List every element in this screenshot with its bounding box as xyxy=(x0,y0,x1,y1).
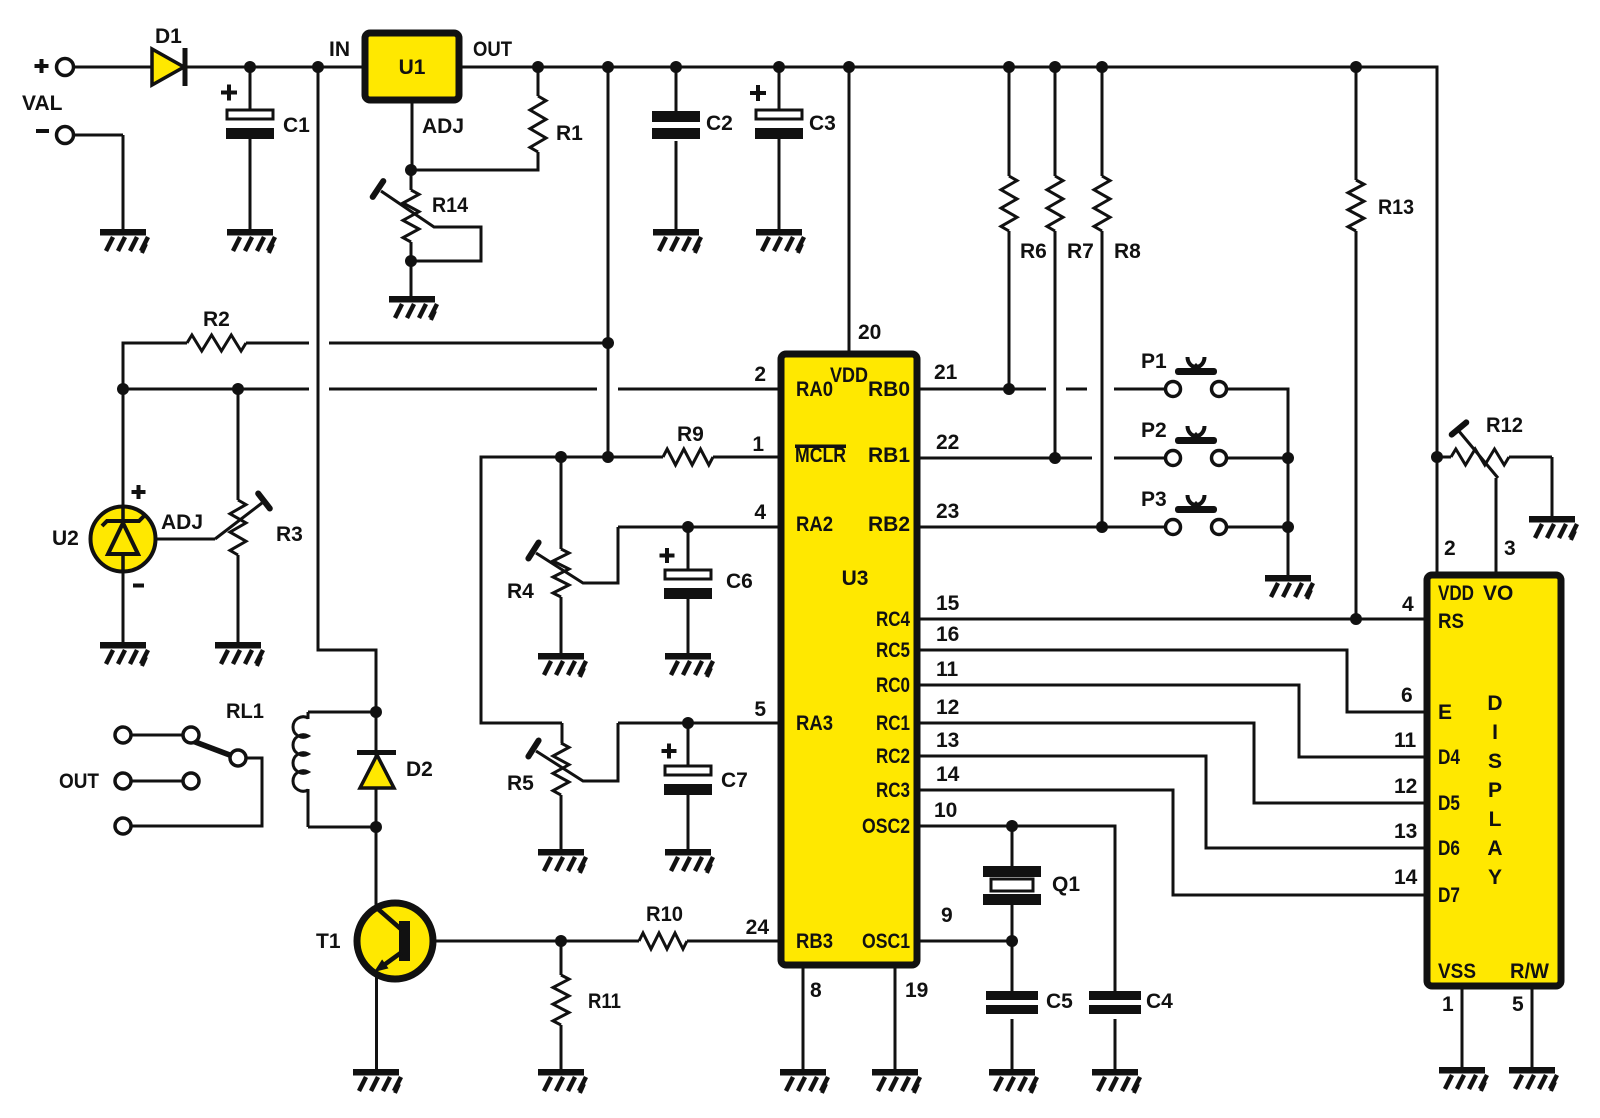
svg-text:D2: D2 xyxy=(406,758,433,781)
svg-text:1: 1 xyxy=(752,433,764,456)
svg-text:I: I xyxy=(1492,721,1498,744)
svg-text:C5: C5 xyxy=(1046,990,1073,1013)
svg-text:14: 14 xyxy=(1394,866,1418,889)
svg-text:VAL: VAL xyxy=(22,92,63,115)
svg-text:R4: R4 xyxy=(507,580,534,603)
svg-text:11: 11 xyxy=(936,658,959,681)
svg-text:RA3: RA3 xyxy=(796,712,833,735)
svg-text:24: 24 xyxy=(746,916,770,939)
svg-text:3: 3 xyxy=(1504,537,1516,560)
svg-text:R13: R13 xyxy=(1378,196,1414,219)
svg-text:RA0: RA0 xyxy=(796,378,833,401)
svg-text:R3: R3 xyxy=(276,523,303,546)
svg-text:2: 2 xyxy=(1444,537,1456,560)
svg-text:IN: IN xyxy=(329,38,350,61)
svg-text:D5: D5 xyxy=(1438,792,1460,815)
svg-text:4: 4 xyxy=(754,501,766,524)
svg-text:1: 1 xyxy=(1442,993,1454,1016)
svg-text:VDD: VDD xyxy=(1438,582,1474,605)
svg-text:23: 23 xyxy=(936,500,959,523)
svg-text:20: 20 xyxy=(858,321,881,344)
svg-text:A: A xyxy=(1487,837,1502,860)
svg-text:22: 22 xyxy=(936,431,959,454)
svg-text:R12: R12 xyxy=(1486,414,1523,437)
svg-text:R/W: R/W xyxy=(1510,960,1549,983)
svg-text:Q1: Q1 xyxy=(1052,873,1080,896)
svg-text:OSC2: OSC2 xyxy=(862,815,910,838)
svg-text:R7: R7 xyxy=(1067,240,1094,263)
svg-text:OUT: OUT xyxy=(473,38,512,61)
svg-text:D: D xyxy=(1487,692,1502,715)
svg-text:4: 4 xyxy=(1402,593,1414,616)
svg-text:RC5: RC5 xyxy=(876,639,910,662)
svg-text:OSC1: OSC1 xyxy=(862,930,910,953)
svg-text:RB3: RB3 xyxy=(796,930,833,953)
svg-text:5: 5 xyxy=(754,698,766,721)
svg-text:D7: D7 xyxy=(1438,884,1460,907)
svg-text:E: E xyxy=(1438,701,1452,724)
svg-text:D1: D1 xyxy=(155,25,182,48)
svg-text:R10: R10 xyxy=(646,903,683,926)
svg-text:5: 5 xyxy=(1512,993,1524,1016)
svg-text:6: 6 xyxy=(1401,684,1413,707)
svg-text:8: 8 xyxy=(810,979,822,1002)
svg-text:C4: C4 xyxy=(1146,990,1173,1013)
svg-text:OUT: OUT xyxy=(59,770,99,793)
svg-text:R6: R6 xyxy=(1020,240,1047,263)
svg-text:U1: U1 xyxy=(399,56,426,79)
svg-text:L: L xyxy=(1489,808,1502,831)
svg-text:D6: D6 xyxy=(1438,837,1460,860)
svg-text:9: 9 xyxy=(941,904,953,927)
svg-text:R1: R1 xyxy=(556,122,583,145)
svg-text:P3: P3 xyxy=(1141,488,1167,511)
svg-text:P2: P2 xyxy=(1141,419,1167,442)
svg-text:RC1: RC1 xyxy=(876,712,910,735)
svg-text:P: P xyxy=(1488,779,1502,802)
svg-text:D4: D4 xyxy=(1438,746,1460,769)
svg-text:C7: C7 xyxy=(721,769,748,792)
svg-text:2: 2 xyxy=(754,363,766,386)
svg-text:19: 19 xyxy=(905,979,928,1002)
svg-text:ADJ: ADJ xyxy=(161,511,203,534)
svg-text:RL1: RL1 xyxy=(226,700,264,723)
svg-text:16: 16 xyxy=(936,623,959,646)
svg-text:RC2: RC2 xyxy=(876,745,910,768)
svg-text:RB1: RB1 xyxy=(868,444,910,467)
svg-text:S: S xyxy=(1488,750,1502,773)
svg-text:RB2: RB2 xyxy=(868,513,910,536)
svg-text:RB0: RB0 xyxy=(868,378,910,401)
svg-text:R8: R8 xyxy=(1114,240,1141,263)
svg-text:Y: Y xyxy=(1488,866,1502,889)
svg-text:13: 13 xyxy=(936,729,959,752)
svg-text:10: 10 xyxy=(934,799,957,822)
svg-text:RS: RS xyxy=(1438,610,1464,633)
svg-text:R11: R11 xyxy=(588,990,621,1013)
svg-text:C6: C6 xyxy=(726,570,753,593)
svg-text:RA2: RA2 xyxy=(796,513,833,536)
svg-text:VO: VO xyxy=(1483,582,1513,605)
svg-text:12: 12 xyxy=(1394,775,1417,798)
svg-text:R9: R9 xyxy=(677,423,704,446)
svg-text:15: 15 xyxy=(936,592,960,615)
svg-text:T1: T1 xyxy=(316,930,341,953)
svg-text:RC3: RC3 xyxy=(876,779,910,802)
svg-text:R14: R14 xyxy=(432,194,468,217)
svg-text:11: 11 xyxy=(1394,729,1417,752)
svg-text:R5: R5 xyxy=(507,772,534,795)
svg-text:13: 13 xyxy=(1394,820,1417,843)
svg-text:C2: C2 xyxy=(706,112,733,135)
svg-text:12: 12 xyxy=(936,696,959,719)
svg-text:RC4: RC4 xyxy=(876,608,910,631)
svg-text:P1: P1 xyxy=(1141,350,1167,373)
svg-text:VSS: VSS xyxy=(1438,960,1476,983)
svg-text:C3: C3 xyxy=(809,112,836,135)
svg-text:ADJ: ADJ xyxy=(422,115,464,138)
svg-text:R2: R2 xyxy=(203,308,230,331)
svg-text:VDD: VDD xyxy=(830,364,868,387)
svg-text:U2: U2 xyxy=(52,527,79,550)
svg-text:U3: U3 xyxy=(842,567,869,590)
svg-text:21: 21 xyxy=(934,361,958,384)
svg-text:RC0: RC0 xyxy=(876,674,910,697)
svg-text:C1: C1 xyxy=(283,114,310,137)
svg-text:14: 14 xyxy=(936,763,960,786)
